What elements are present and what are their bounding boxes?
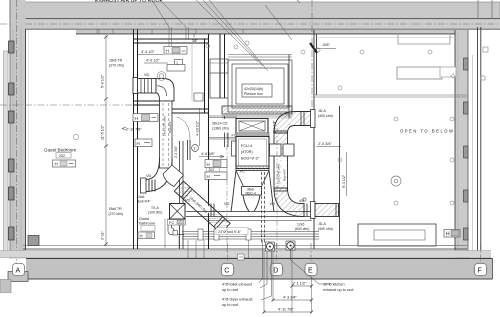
exhaust drop to riser circles <box>262 172 265 244</box>
FCU discharge hatch band <box>236 166 269 171</box>
pipe label <box>216 228 248 235</box>
ceiling diffuser with X <box>236 119 268 134</box>
svg-text:FC: FC <box>169 220 174 225</box>
svg-text:2'-11 7/8": 2'-11 7/8" <box>126 128 142 132</box>
vanity fixture box <box>167 65 185 72</box>
right room west wall <box>314 30 317 249</box>
open-to-below edge line <box>314 95 467 97</box>
shaft chase outline <box>210 73 228 98</box>
svg-text:(600 cfm): (600 cfm) <box>295 227 309 231</box>
svg-text:E: E <box>308 268 313 275</box>
shaft box upper <box>210 59 228 73</box>
svg-text:202: 202 <box>59 154 65 158</box>
svg-text:F: F <box>478 268 482 275</box>
corridor lines <box>209 116 238 139</box>
plenum lower lines <box>222 115 292 117</box>
right outer facade lines <box>472 55 474 252</box>
supply diffuser square <box>170 204 186 220</box>
grid bubble C <box>220 262 235 277</box>
svg-text:H: H <box>140 234 143 239</box>
top exterior wall band <box>10 2 500 29</box>
svg-text:18x6 TR: 18x6 TR <box>109 59 123 63</box>
dim row 4'-3 3/4" <box>272 296 314 302</box>
svg-text:203: 203 <box>209 168 215 172</box>
svg-text:Bod+9'4": Bod+9'4" <box>137 200 151 204</box>
grid bubble A <box>13 264 25 276</box>
svg-text:H: H <box>207 162 210 167</box>
svg-text:H: H <box>55 162 58 167</box>
west wall grille <box>141 178 147 193</box>
grid bubble E <box>304 262 319 277</box>
left exterior window wall <box>10 0 26 259</box>
corridor shaft wall <box>220 34 225 98</box>
svg-text:Bod+9'4": Bod+9'4" <box>168 121 172 133</box>
left room east partition wall <box>134 30 138 250</box>
plenum nested rects <box>228 55 292 119</box>
svg-text:4'-6 5/8": 4'-6 5/8" <box>201 152 216 156</box>
svg-text:(400 cfm): (400 cfm) <box>318 227 333 231</box>
svg-text:BOU=9'-3": BOU=9'-3" <box>241 157 260 161</box>
svg-text:VD: VD <box>146 174 152 178</box>
dim extension lines bottom <box>264 245 312 313</box>
recessed light right room <box>391 176 401 186</box>
svg-text:(1360 cfm): (1360 cfm) <box>212 126 229 130</box>
svg-text:9'-3 1/2": 9'-3 1/2" <box>342 174 346 188</box>
bottom-left corner block <box>0 280 11 293</box>
svg-text:(270 cfm): (270 cfm) <box>109 212 124 216</box>
svg-text:42x20(14(h): 42x20(14(h) <box>244 87 263 91</box>
kitchen horizontal duct <box>315 204 339 217</box>
svg-text:FC: FC <box>240 170 245 174</box>
H-tag left wall lower <box>135 139 152 147</box>
svg-text:3/8": 3/8" <box>192 39 198 43</box>
bathroom duct elbow <box>156 79 174 102</box>
bathroom corner box <box>194 93 203 101</box>
svg-text:FCU-4: FCU-4 <box>241 144 252 148</box>
svg-text:Bod+9'4": Bod+9'4" <box>283 169 287 181</box>
kitchen supply diagonal duct <box>174 181 230 233</box>
svg-text:4'-0 1/2": 4'-0 1/2" <box>146 59 161 63</box>
svg-text:VD: VD <box>185 199 191 203</box>
bottom exterior wall band <box>26 259 493 280</box>
svg-text:3'-11": 3'-11" <box>101 230 105 240</box>
column block left <box>28 236 39 246</box>
svg-text:4"Ø dryer exhaust: 4"Ø dryer exhaust <box>222 298 253 302</box>
svg-text:10"Ø kitchen: 10"Ø kitchen <box>323 283 345 287</box>
curtain track line right room <box>317 37 456 39</box>
elbow turning west <box>146 158 173 192</box>
pipe drop leader stubs <box>188 240 249 258</box>
header flange ticks <box>211 204 214 217</box>
svg-text:24"Ø snd 9'-6": 24"Ø snd 9'-6" <box>218 230 242 234</box>
svg-text:FC: FC <box>232 134 237 138</box>
PIPES <box>182 232 319 240</box>
svg-text:4"Ø toilet exhaust: 4"Ø toilet exhaust <box>222 283 253 287</box>
svg-text:-5/8": -5/8" <box>322 43 331 47</box>
FCU left tab <box>232 141 237 156</box>
plenum label box <box>242 84 272 97</box>
rotated dim 5'-2 1/4" <box>342 152 347 196</box>
left outer facade strip <box>4 51 9 255</box>
svg-text:H: H <box>135 116 138 121</box>
exhaust riser leader lines <box>259 240 330 300</box>
right bell funnel <box>254 171 274 212</box>
dim 5/8" top right <box>314 43 336 53</box>
JD-A wall grille <box>311 110 316 128</box>
svg-text:up to roof: up to roof <box>222 303 239 307</box>
interior floor edge bottom <box>23 245 467 247</box>
kitchen exhaust riser circles <box>266 242 294 250</box>
wall cabinet right room <box>440 67 456 77</box>
kitchen east wall <box>339 106 341 246</box>
svg-text:TX-A: TX-A <box>151 206 159 210</box>
H-tag right wall <box>444 230 460 238</box>
elbow to diagonal <box>163 165 184 187</box>
lower terrace strip <box>0 251 491 258</box>
condensate pipe elbow <box>168 219 184 235</box>
grid stub centerlines above bubbles <box>228 243 481 264</box>
riser bottom elbow <box>274 188 304 217</box>
svg-text:Plenum box: Plenum box <box>244 92 263 96</box>
L-tag bathroom <box>175 60 183 67</box>
VD labels <box>144 73 305 206</box>
diffuser-FCU gray band <box>236 133 269 138</box>
svg-text:exhaust up to roof: exhaust up to roof <box>323 288 354 292</box>
svg-text:VD: VD <box>299 199 305 203</box>
right wall mullion blocks <box>464 58 469 240</box>
svg-text:12x6: 12x6 <box>297 223 304 227</box>
riser label patches <box>275 157 280 185</box>
svg-text:(470R): (470R) <box>241 150 253 154</box>
FCU-4 unit <box>236 137 269 169</box>
soffit rect right room <box>397 67 442 79</box>
top leader lines <box>152 0 292 71</box>
svg-text:JD-A: JD-A <box>318 109 326 113</box>
svg-text:(400 cfm): (400 cfm) <box>318 114 333 118</box>
band tag box <box>238 254 245 260</box>
FCU reducer <box>236 171 269 187</box>
svg-text:4'-3 3/4": 4'-3 3/4" <box>283 296 298 300</box>
svg-text:2'-3 3/8": 2'-3 3/8" <box>174 145 178 158</box>
MDC box <box>242 187 262 196</box>
svg-text:2'-1 1/2": 2'-1 1/2" <box>293 282 308 286</box>
grid centerline vertical E-top <box>311 0 313 112</box>
svg-text:(100 cfm): (100 cfm) <box>148 211 162 215</box>
H-tag bathroom <box>164 47 187 55</box>
svg-text:bathroom: bathroom <box>139 222 155 226</box>
grid centerline vertical C <box>226 133 228 252</box>
svg-text:4'-11 7/8": 4'-11 7/8" <box>278 308 294 312</box>
bathroom dim 4'-0 1/2" <box>144 59 168 64</box>
plenum hatch band <box>222 106 292 114</box>
svg-text:H: H <box>166 49 169 54</box>
H-tag left wall upper <box>133 114 158 122</box>
upper soffit rect right room <box>398 34 450 45</box>
H-tags corridor mid <box>205 160 227 180</box>
thick leader mark top right <box>310 43 317 53</box>
grid centerline horizontal mid-left <box>0 104 134 106</box>
grid centerline horizontal top <box>0 23 500 25</box>
corner return below A <box>8 272 28 282</box>
kitchen duct flanges <box>304 204 307 217</box>
rotated dim corridor <box>199 108 201 146</box>
svg-text:D: D <box>273 268 278 275</box>
svg-text:11'-5 1/2": 11'-5 1/2" <box>101 124 105 140</box>
grid bubble D <box>269 262 284 277</box>
svg-text:MDC-4: MDC-4 <box>246 191 256 195</box>
supply header horizontal <box>186 212 312 221</box>
top interior wall strip <box>76 31 467 34</box>
T thermostat <box>192 145 199 152</box>
svg-text:JD-A: JD-A <box>318 222 326 226</box>
left bell funnel <box>231 171 249 212</box>
vertical duct below bathroom <box>160 101 173 168</box>
right exterior wall <box>455 30 468 259</box>
grid centerline vertical D <box>276 128 278 252</box>
dim row 2'-1 1/2" <box>291 282 314 288</box>
svg-text:36x14 CD: 36x14 CD <box>212 122 228 126</box>
pipe fittings <box>198 229 251 240</box>
damper boxes on riser <box>270 144 282 156</box>
JD-A duct flanges <box>301 112 304 126</box>
svg-text:14x6: 14x6 <box>137 195 144 199</box>
bathroom glass partition <box>191 43 193 101</box>
room tag left room <box>44 148 76 168</box>
grid bubble F <box>473 262 488 277</box>
door swing arc <box>177 117 191 141</box>
top strip tick marks <box>97 30 243 35</box>
svg-text:Guest Bedroom: Guest Bedroom <box>44 148 76 153</box>
counter floor line <box>340 245 456 247</box>
svg-text:A: A <box>16 268 21 275</box>
bathroom dim 3'-4 1/2" <box>138 50 163 55</box>
bathroom walls <box>134 34 209 249</box>
svg-text:H: H <box>446 232 450 238</box>
FC tag below diffuser <box>168 220 186 226</box>
svg-text:3: 3 <box>193 34 195 38</box>
left room dimension string <box>101 35 109 246</box>
diamond mark <box>451 74 455 78</box>
svg-text:H: H <box>137 141 140 146</box>
svg-text:H: H <box>207 174 210 179</box>
svg-text:2'-8 3/4": 2'-8 3/4" <box>273 120 277 133</box>
ceiling circles right room <box>73 41 454 205</box>
kitchen counter island <box>358 224 436 246</box>
svg-text:VD: VD <box>270 202 276 206</box>
svg-text:Guest: Guest <box>139 217 150 221</box>
closet wall lines <box>180 141 184 249</box>
svg-text:OPEN TO BELOW: OPEN TO BELOW <box>400 129 454 134</box>
svg-text:18x6 TR: 18x6 TR <box>109 207 123 211</box>
window sill line left room <box>28 30 30 250</box>
dim row 4'-11 7/8" <box>263 308 314 314</box>
svg-text:C: C <box>224 268 229 275</box>
svg-text:2'-0 3/4": 2'-0 3/4" <box>318 142 333 146</box>
bathroom exhaust fan circle <box>157 72 166 81</box>
room tag bathroom <box>138 217 155 239</box>
kitchen exhaust riser boxes <box>266 242 275 251</box>
svg-text:up to roof: up to roof <box>222 288 239 292</box>
left wall mullion blocks <box>9 41 15 240</box>
dim 4'-6 5/8" <box>199 152 224 158</box>
leader verticals below diffuser <box>164 219 166 249</box>
svg-text:VD: VD <box>144 73 150 77</box>
svg-text:3'-4 1/2": 3'-4 1/2" <box>141 50 156 54</box>
bathroom flex duct <box>138 79 157 94</box>
svg-text:4'-10 1/2": 4'-10 1/2" <box>196 120 200 136</box>
svg-text:(270 cfm): (270 cfm) <box>109 63 124 67</box>
dim 2'-0 3/4" right room <box>317 142 342 147</box>
svg-text:5'-0 1/2": 5'-0 1/2" <box>101 74 105 88</box>
bathroom duct wall endcap <box>133 78 138 94</box>
right riser duct <box>274 131 288 191</box>
shaft wall lower segment <box>225 116 229 147</box>
grid centerline vertical A <box>16 0 18 278</box>
kitchen wall grille <box>311 202 316 219</box>
elbow riser to JD-A duct <box>274 112 314 134</box>
svg-text:14x6 (270 cfm): 14x6 (270 cfm) <box>163 116 167 136</box>
